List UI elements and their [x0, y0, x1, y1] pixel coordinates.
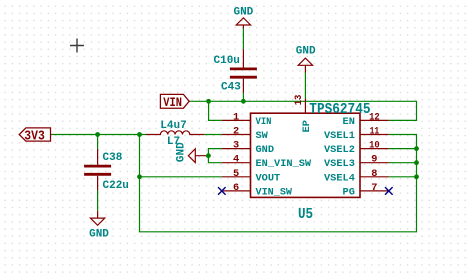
pin 4 EN_VIN_SW — [222, 154, 312, 171]
wire EP pin to GND symbol — [304, 73, 306, 99]
ground above EP pin — [296, 46, 316, 73]
svg-text:VSEL3: VSEL3 — [324, 158, 355, 170]
junction 3V3/feedback — [137, 132, 142, 137]
svg-text:8: 8 — [371, 168, 377, 180]
svg-text:EN: EN — [343, 116, 355, 128]
svg-text:SW: SW — [256, 130, 269, 142]
svg-text:6: 6 — [233, 182, 239, 194]
svg-text:1: 1 — [233, 111, 239, 123]
pin 2 SW — [222, 126, 269, 143]
svg-text:11: 11 — [370, 126, 380, 138]
svg-text:EP: EP — [301, 120, 313, 132]
svg-text:EN_VIN_SW: EN_VIN_SW — [256, 158, 312, 170]
junction VSEL2 — [414, 146, 419, 151]
capacitor C43 C10u — [214, 49, 257, 93]
pin 8 VSEL4 — [324, 168, 389, 185]
wire pins 3-4 tie to GND — [208, 149, 221, 163]
ground left of pins 3-4 — [176, 142, 209, 163]
svg-text:7: 7 — [371, 182, 377, 194]
svg-text:VIN: VIN — [256, 116, 272, 128]
svg-text:GND: GND — [256, 144, 275, 156]
wire C43 top to GND — [242, 28, 244, 49]
svg-text:9: 9 — [371, 154, 377, 166]
svg-text:12: 12 — [369, 111, 380, 123]
capacitor C38 C22u — [84, 149, 129, 192]
wire C43 bottom to VIN rail — [242, 93, 244, 101]
svg-text:13: 13 — [293, 95, 305, 106]
pin 5 VOUT — [222, 168, 281, 185]
net label VIN — [160, 94, 189, 110]
pin 11 VSEL1 — [324, 126, 389, 143]
svg-text:GND: GND — [233, 6, 253, 18]
svg-text:L7: L7 — [167, 136, 180, 148]
junction VIN/pin1 — [206, 99, 211, 104]
svg-text:PG: PG — [343, 186, 355, 198]
svg-text:C10u: C10u — [214, 55, 240, 67]
pin 3 GND — [222, 140, 274, 157]
junction VSEL4 — [414, 174, 419, 179]
wire C38 bottom to GND — [97, 191, 99, 211]
IC U5 body — [251, 113, 361, 197]
svg-text:VOUT: VOUT — [256, 172, 281, 184]
junction 3V3/C38 — [95, 132, 100, 137]
pin 7 PG — [343, 182, 389, 199]
wire 3V3 horizontal rail — [51, 134, 147, 136]
svg-text:GND: GND — [89, 228, 109, 240]
svg-text:3: 3 — [233, 140, 239, 152]
svg-text:5: 5 — [233, 168, 239, 180]
wire feedback loop 3V3 to VSEL column — [140, 135, 417, 232]
junction VSEL3 — [414, 160, 419, 165]
svg-text:C38: C38 — [103, 152, 123, 164]
svg-text:10: 10 — [369, 140, 380, 152]
svg-text:U5: U5 — [298, 207, 313, 223]
wire VSEL2 — [389, 148, 417, 150]
ground above C43 — [233, 6, 253, 28]
svg-text:VIN: VIN — [163, 95, 182, 110]
crosshair marker — [70, 39, 84, 53]
pin 1 VIN — [222, 111, 272, 128]
svg-text:3V3: 3V3 — [24, 129, 45, 144]
no-connect pin 6 — [218, 187, 226, 195]
svg-text:L4u7: L4u7 — [160, 120, 186, 132]
svg-text:VIN_SW: VIN_SW — [256, 186, 293, 198]
pin 6 VIN_SW — [222, 182, 293, 199]
svg-text:C22u: C22u — [103, 180, 129, 192]
svg-text:TPS62745: TPS62745 — [309, 102, 370, 118]
pin 9 VSEL3 — [324, 154, 389, 171]
svg-text:GND: GND — [296, 46, 316, 58]
svg-text:VSEL2: VSEL2 — [324, 144, 355, 156]
junction VOUT/feedback — [137, 174, 142, 179]
ground below C38 — [89, 211, 109, 241]
wire VOUT to feedback column — [140, 176, 222, 178]
wire VSEL4 — [389, 176, 417, 178]
svg-text:2: 2 — [233, 126, 239, 138]
pin 13 EP — [293, 95, 313, 133]
svg-text:VSEL1: VSEL1 — [324, 130, 355, 142]
svg-text:4: 4 — [233, 154, 239, 166]
pin 10 VSEL2 — [324, 140, 389, 157]
inductor L7 L4u7 — [146, 120, 204, 148]
no-connect pin 7 — [385, 187, 393, 195]
junction VIN/C43 — [241, 99, 246, 104]
wire VIN drop to pin 1 — [209, 101, 222, 120]
pin 12 EN — [343, 111, 389, 128]
wire VSEL3 — [389, 162, 417, 164]
wire C38 top — [97, 135, 99, 149]
junction GND tie pins 3-4 — [206, 153, 211, 158]
wire inductor to pin 2 — [204, 134, 222, 136]
net label 3V3 — [19, 128, 50, 144]
svg-text:C43: C43 — [221, 82, 241, 94]
svg-text:VSEL4: VSEL4 — [324, 172, 355, 184]
wire VIN rail with EN loop — [189, 101, 416, 120]
